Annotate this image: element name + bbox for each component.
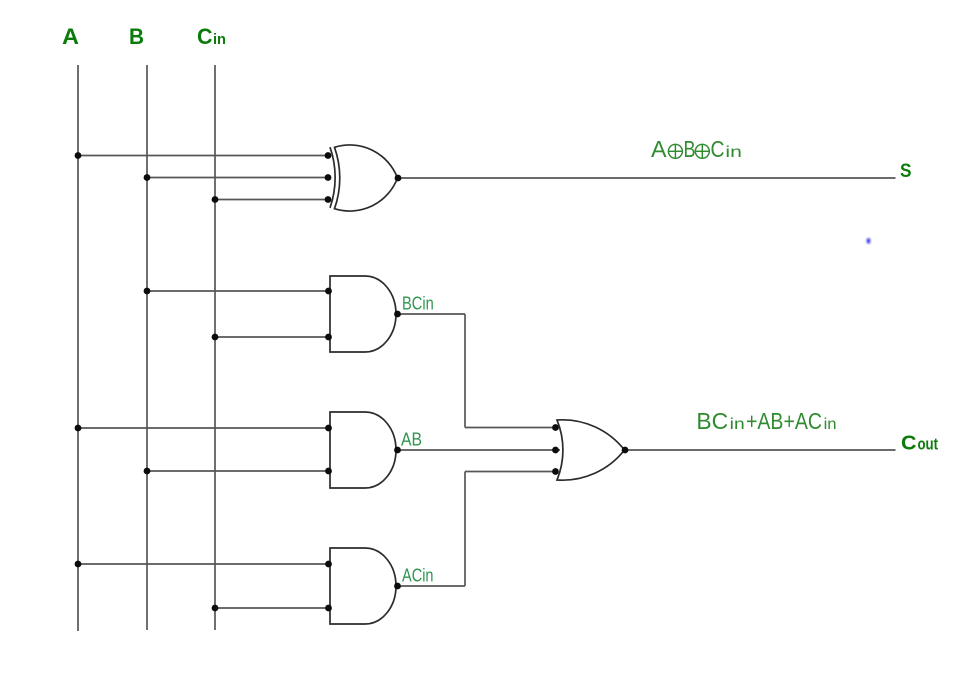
svg-text:B: B <box>684 136 696 162</box>
wire B to AND2 input 2 <box>147 470 331 472</box>
svg-text:in: in <box>824 416 837 433</box>
XOR input pin dot 2 <box>325 174 332 181</box>
junction dot A/XOR <box>75 152 82 159</box>
AND1 input pin dot 2 <box>325 334 332 341</box>
stray blue cursor mark <box>867 238 870 243</box>
AND2 input pin dot 1 <box>325 425 332 432</box>
wire AND1 output to OR input 1 <box>465 427 558 429</box>
svg-text:in: in <box>725 144 742 161</box>
AND gate U4 (ACin) <box>330 548 396 624</box>
wire B to XOR input 2 <box>147 177 331 179</box>
junction dot Cin/AND3 <box>212 605 219 612</box>
wire B to AND1 input 1 <box>147 290 331 292</box>
svg-text:+AB+AC: +AB+AC <box>746 408 822 434</box>
junction dot B/XOR <box>144 174 151 181</box>
wire AND1 output right segment <box>396 313 465 315</box>
input bus B vertical line <box>146 65 148 630</box>
svg-text:A: A <box>62 24 79 49</box>
junction dot Cin/XOR <box>212 196 219 203</box>
wire A to AND3 input 1 <box>78 563 331 565</box>
OR output dot <box>622 447 629 454</box>
svg-text:A: A <box>651 136 667 162</box>
svg-text:C: C <box>901 433 917 455</box>
AND1 input pin dot 1 <box>325 288 332 295</box>
svg-text:S: S <box>900 160 912 182</box>
AND3 input pin dot 1 <box>325 561 332 568</box>
net label A xor B xor Cin <box>651 136 742 162</box>
wire A to AND2 input 1 <box>78 427 331 429</box>
XOR input pin dot 3 <box>325 196 332 203</box>
wire OR output to Cout <box>625 449 896 451</box>
AND2 input pin dot 2 <box>325 468 332 475</box>
AND gate U3 (AB) <box>330 412 396 488</box>
svg-text:in: in <box>730 416 745 433</box>
XOR input pin dot 1 <box>325 152 332 159</box>
wire AND1 output down segment <box>464 314 466 428</box>
wire AND3 output to OR input 3 <box>465 471 558 473</box>
XOR gate U1 input double arc <box>330 147 335 208</box>
wire Cin to AND1 input 2 <box>215 336 331 338</box>
XOR gate U1 (sum) body <box>335 145 398 211</box>
xor symbol circle 1 <box>668 144 709 158</box>
OR gate U5 (carry) body <box>557 420 625 480</box>
XOR output dot <box>395 175 402 182</box>
junction dot B/AND2 <box>144 468 151 475</box>
input bus A vertical line <box>77 65 79 631</box>
svg-text:out: out <box>918 436 939 454</box>
svg-text:B: B <box>129 24 144 49</box>
svg-text:C: C <box>711 136 725 162</box>
AND2 output dot <box>394 447 401 454</box>
AND3 output dot <box>394 583 401 590</box>
svg-text:BCin: BCin <box>402 293 434 313</box>
wire Cin to XOR input 3 <box>215 199 331 201</box>
wire AND3 output up segment <box>464 472 466 587</box>
AND gate U2 (BCin) <box>330 276 396 352</box>
svg-text:in: in <box>213 31 226 48</box>
AND3 input pin dot 2 <box>325 605 332 612</box>
AND1 output dot <box>394 311 401 318</box>
junction dot Cin/AND1 <box>212 334 219 341</box>
OR input pin dot 1 <box>552 424 559 431</box>
xor symbol circle 2 <box>695 144 709 158</box>
wire A to XOR input 1 <box>78 155 331 157</box>
svg-text:AB: AB <box>401 429 422 449</box>
svg-text:ACin: ACin <box>402 566 434 586</box>
wire AND3 output right segment <box>396 585 465 587</box>
svg-text:C: C <box>197 24 213 49</box>
wire AND2 output to OR input 2 <box>396 449 560 451</box>
junction dot B/AND1 <box>144 288 151 295</box>
OR input pin dot 2 <box>552 447 559 454</box>
wire Cin to AND3 input 2 <box>215 607 331 609</box>
wire XOR output to S <box>397 177 896 179</box>
OR input pin dot 3 <box>552 468 559 475</box>
net label BCin+AB+ACin <box>696 408 836 434</box>
input bus Cin vertical line <box>214 65 216 630</box>
svg-text:BC: BC <box>696 408 728 434</box>
junction dot A/AND2 <box>75 425 82 432</box>
junction dot A/AND3 <box>75 561 82 568</box>
